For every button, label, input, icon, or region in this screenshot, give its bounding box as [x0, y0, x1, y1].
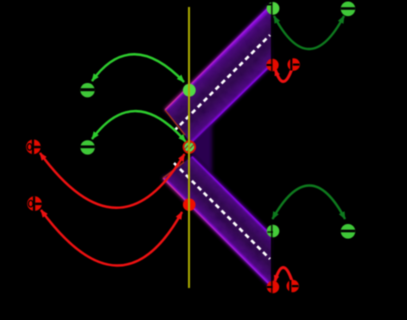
dim purple wedge where the two band edges cross behind the circle [187, 123, 212, 174]
hole RT1 (top right pair left, plus) [266, 59, 278, 71]
red n-arc arrow between bottom-right holes [275, 268, 292, 282]
lower band dashed center line [174, 163, 270, 259]
hole R1 (far left upper, plus) [26, 140, 41, 155]
hole RB1 at band apex (bottom, plus) [267, 281, 279, 293]
dark band edge over apex dots (bottom) [271, 225, 273, 293]
hole R2 (far left lower, plus) [27, 196, 42, 211]
green arc arrow: left electron to axis electron (top) [92, 54, 184, 82]
upper valence band glow [165, 5, 271, 143]
electron G2 (left middle, minus) [80, 140, 94, 154]
red u-arc arrow between top-right holes [276, 70, 292, 82]
dark green arc arrow: apex electron to right electron (top) [274, 16, 344, 49]
band texture noise [150, 0, 280, 300]
exciton / recombination center C2 (hatched, red ring) [181, 136, 199, 157]
electron M2 (right middle outer, minus) [341, 224, 356, 239]
green arc arrow: left electron to center circle [92, 111, 186, 141]
upper band dashed center line [174, 35, 270, 131]
hole RT2 (top right pair right, plus) [288, 58, 300, 70]
electron C1 on axis [183, 84, 196, 97]
hole RB2 (bottom right pair right, plus) [287, 280, 299, 292]
dark band edge over apex dots (top) [271, 1, 273, 71]
dark green arc arrow: band-corner electron to right electron (bottom) [273, 186, 346, 220]
electron T1 at band apex (top) [267, 2, 280, 15]
lower conduction band glow [163, 157, 271, 287]
lower band body [163, 157, 271, 287]
red arc arrow: left hole to axis hole (bottom) [41, 210, 182, 266]
red arc arrow: left hole to center circle [40, 153, 185, 208]
upper band body [165, 5, 271, 143]
hole C3 on axis [183, 198, 196, 211]
electron M1 at band corner (right middle, half minus) [267, 225, 280, 238]
vertical axis line (olive), drawn over the axis dots [188, 7, 190, 288]
electron G1 (left top, minus) [80, 83, 94, 97]
electron T2 (top right, minus) [341, 2, 356, 17]
